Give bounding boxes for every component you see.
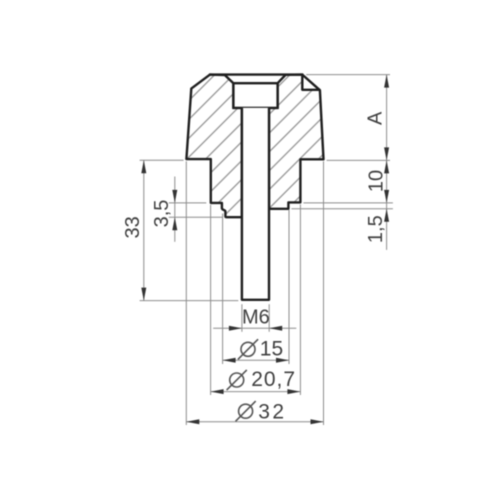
svg-text:M6: M6 xyxy=(242,306,270,328)
dia20,7 dim line xyxy=(211,391,301,393)
M6 arrow right-pointing xyxy=(229,326,242,331)
dim 1,5 extension bottom xyxy=(291,208,393,210)
right vertical dim line xyxy=(386,75,388,250)
dim 10 arrow up xyxy=(384,160,389,173)
dim 3,5 extension top xyxy=(169,202,207,204)
svg-text:10: 10 xyxy=(365,170,387,192)
dim 10 arrow down xyxy=(384,190,389,203)
dim 3,5 line xyxy=(174,177,176,242)
dia32 extension left xyxy=(185,161,187,425)
dia20,7 arrow right xyxy=(287,389,300,394)
svg-text:20,7: 20,7 xyxy=(251,368,296,391)
M6 dim line xyxy=(213,327,296,329)
dim A arrow up xyxy=(384,75,389,88)
dia15 arrow right xyxy=(276,358,289,363)
dim 33 arrow up xyxy=(141,160,146,173)
dia20,7 extension left xyxy=(210,205,212,395)
dia32 dim line xyxy=(186,421,323,423)
top face line xyxy=(209,73,303,75)
right corner chamfer line xyxy=(302,75,320,91)
screw head pocket xyxy=(233,83,277,108)
dia32 extension right xyxy=(323,161,325,425)
body right half section (hatched) xyxy=(269,75,324,209)
dia15 dim line xyxy=(223,359,289,361)
dia15 symbol xyxy=(238,339,258,359)
body left half section (hatched) xyxy=(186,75,242,218)
dim 1,5 arrow up (below) xyxy=(384,209,389,222)
dim 33 extension bottom xyxy=(140,300,239,302)
dim 33 line xyxy=(143,160,145,300)
dim 3,5 arrow up (below) xyxy=(172,217,177,230)
svg-text:1,5: 1,5 xyxy=(365,215,387,243)
svg-text:15: 15 xyxy=(260,337,283,360)
dia32 symbol xyxy=(236,401,256,421)
dia15 arrow left xyxy=(223,358,236,363)
dia20,7 arrow left xyxy=(211,389,224,394)
dia32 arrow right xyxy=(311,419,324,424)
dim A arrow down xyxy=(384,147,389,160)
svg-text:33: 33 xyxy=(122,216,144,238)
dia15 extension left xyxy=(222,214,224,365)
M6 extension right xyxy=(268,304,270,332)
dia32 arrow left xyxy=(186,419,199,424)
M6 arrow left-pointing xyxy=(269,326,282,331)
dim 3,5 arrow down (above) xyxy=(172,190,177,203)
dia20,7 symbol xyxy=(227,370,247,390)
dim 10/1,5 extension xyxy=(303,202,393,204)
dim 33 extension top xyxy=(140,159,184,161)
dia15 extension right xyxy=(288,210,290,364)
dim 33 arrow down xyxy=(141,288,146,301)
dim A extension top xyxy=(306,74,390,76)
screw stem M6 xyxy=(242,108,269,300)
M6 extension left xyxy=(241,304,243,332)
dim A/10 extension middle xyxy=(327,159,390,161)
svg-text:A: A xyxy=(365,111,387,125)
svg-text:32: 32 xyxy=(258,400,286,423)
svg-text:3,5: 3,5 xyxy=(151,200,173,228)
dim 3,5 extension bottom xyxy=(169,216,223,218)
dia20,7 extension right xyxy=(299,204,301,395)
